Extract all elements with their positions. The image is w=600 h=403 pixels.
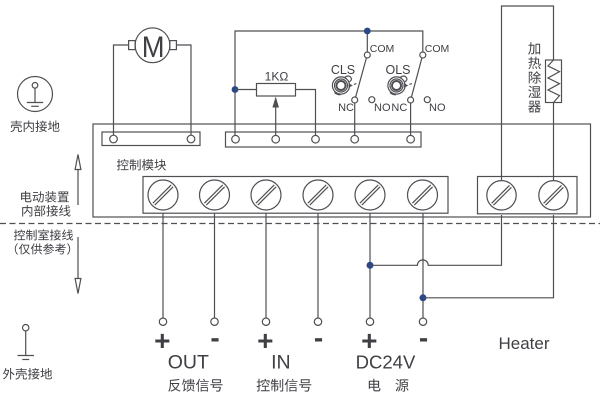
wire terminal 2 down (214, 213, 216, 318)
arrow down (control room wiring) (75, 237, 81, 294)
wire terminal 1 down (162, 213, 164, 318)
ground symbol (internal shell earth) (18, 77, 53, 112)
wire terminal 5 (DC24V +) down (369, 213, 371, 318)
svg-text:OUT: OUT (168, 352, 209, 374)
svg-text:NO: NO (429, 102, 446, 114)
svg-text:CLS: CLS (331, 63, 355, 77)
svg-text:COM: COM (425, 43, 450, 55)
terminal circle DC24V - (419, 318, 426, 325)
wire OLS NC down (410, 103, 412, 135)
boundary dashed line (0, 223, 600, 225)
ground symbol (external shell earth) (18, 325, 35, 360)
svg-text:NO: NO (374, 102, 391, 114)
wire pot right (296, 90, 316, 136)
node junction pot left (232, 86, 239, 93)
wire terminal 4 down (317, 213, 319, 318)
label 控制室接线（仅供参考） (14, 229, 73, 240)
terminal circle IN - (314, 318, 321, 325)
wire DC24V + to heater (with hop) (370, 215, 502, 265)
label 壳内接地 (10, 121, 59, 133)
svg-text:1KΩ: 1KΩ (265, 70, 289, 84)
svg-text:-: - (210, 322, 219, 353)
terminal circle IN + (262, 318, 269, 325)
svg-text:-: - (314, 322, 323, 353)
switch CLS: NC contact (352, 97, 358, 103)
svg-text:M: M (142, 31, 165, 64)
wire motor right to terminal (176, 45, 191, 135)
potentiometer R1 body (257, 84, 296, 97)
svg-text:NC: NC (338, 102, 354, 114)
wire terminal 3 down (265, 213, 267, 318)
label 电 源 (369, 379, 409, 392)
cam OLS (388, 76, 414, 95)
node junction top bus (364, 28, 371, 35)
node junction DC24V + (367, 262, 374, 269)
wire top bus (235, 31, 423, 135)
svg-text:Heater: Heater (498, 334, 549, 353)
svg-text:OLS: OLS (385, 63, 410, 77)
wire terminal 6 (DC24V -) down (422, 213, 424, 318)
label 加热除湿器 (528, 42, 541, 112)
enclosure box (93, 124, 591, 217)
wire CLS NC down (354, 103, 356, 135)
label 控制模块 (117, 159, 166, 171)
heater element body (546, 60, 562, 103)
terminal circle DC24V + (366, 318, 373, 325)
terminal strip left (102, 132, 200, 146)
heater circuit top loop (502, 6, 554, 181)
wire heater element to screw (553, 103, 555, 181)
switch OLS: NC contact (408, 97, 414, 103)
switch CLS: arm (356, 58, 367, 97)
svg-text:IN: IN (271, 352, 291, 374)
wire DC24V - to heater (423, 215, 554, 298)
label 控制信号 (257, 379, 312, 392)
node junction DC24V - (420, 294, 427, 301)
motor M1 (129, 28, 177, 64)
svg-text:DC24V: DC24V (356, 352, 416, 373)
switch OLS: arm (411, 58, 422, 97)
wire motor left to terminal (114, 45, 129, 135)
label 反馈信号 (168, 379, 222, 392)
svg-text:NC: NC (391, 102, 407, 114)
switch OLS: NO contact (424, 97, 430, 103)
heater screw terminal block (478, 177, 578, 214)
terminal strip right (226, 132, 422, 147)
wire CLS COM drop (366, 31, 368, 52)
switch CLS: COM contact (364, 52, 370, 58)
terminal circle OUT + (159, 318, 166, 325)
arrow up (internal wiring) (75, 155, 81, 206)
svg-text:COM: COM (370, 43, 395, 55)
terminal circle OUT - (211, 318, 218, 325)
label 外壳接地 (3, 368, 52, 380)
svg-text:-: - (419, 322, 428, 353)
control module terminal block (143, 177, 448, 214)
switch CLS: NO contact (369, 97, 375, 103)
wire pot left (235, 89, 257, 91)
cam CLS (332, 76, 358, 95)
switch OLS: COM contact (420, 52, 426, 58)
label 电动装置 内部接线 (21, 191, 69, 203)
potentiometer wiper arrow (272, 97, 279, 136)
polarity labels (154, 322, 428, 356)
